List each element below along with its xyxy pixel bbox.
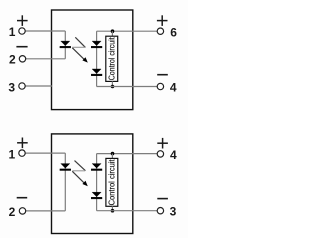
LED D1 [60, 41, 71, 48]
wire pin1 to LED anode (bottom) [25, 152, 65, 154]
svg-text:Control circuit: Control circuit [107, 37, 116, 81]
control circuit block (top coupler) [106, 36, 118, 81]
plus sign pin6 [157, 15, 168, 26]
wire photodiode vertical leg (bottom) [96, 154, 98, 211]
svg-text:6: 6 [170, 26, 177, 40]
svg-text:1: 1 [9, 148, 16, 162]
wire pin1 to LED anode [25, 30, 65, 32]
terminal pin 1 [19, 28, 25, 34]
photodiode PD2 (top coupler) [91, 69, 102, 76]
wire top rail to pin4 (bottom) [97, 153, 158, 155]
svg-text:2: 2 [9, 205, 16, 219]
terminal pin 2 (bottom) [19, 208, 25, 214]
svg-text:Control circuit: Control circuit [108, 159, 117, 206]
terminal pin 2 [19, 56, 25, 62]
plus sign pin1 [17, 15, 28, 26]
svg-text:3: 3 [8, 80, 15, 94]
wire control circuit top stub [111, 31, 113, 36]
terminal pin 6 [157, 28, 163, 34]
wire pin2 to LED cathode [26, 58, 66, 60]
wire control circuit top stub (bottom) [111, 154, 113, 159]
svg-text:1: 1 [9, 25, 16, 39]
junction dot bottom (bottom coupler) [111, 209, 115, 213]
wire control circuit bottom stub (bottom) [111, 206, 113, 210]
minus sign pin2 [16, 46, 27, 48]
junction dot bottom (control circuit to -rail) [111, 85, 115, 89]
minus sign pin2 (bottom) [17, 197, 28, 199]
minus sign pin4 [157, 74, 168, 76]
control circuit block (bottom coupler) [106, 158, 118, 206]
plus sign pin1 (bottom) [17, 138, 28, 149]
package outline U2 (bottom coupler) [52, 134, 133, 234]
LED D2 [60, 164, 71, 171]
terminal pin 1 (bottom) [19, 150, 25, 156]
wire control circuit bottom stub [111, 81, 113, 86]
svg-text:4: 4 [170, 81, 177, 95]
photodiode PD2 (bottom coupler) [91, 192, 102, 199]
wire pin3 stub (N.C.) [25, 85, 52, 87]
photodiode PD1 (bottom coupler) [91, 164, 102, 171]
wire bottom rail to pin4 [97, 86, 158, 88]
junction dot top (control circuit to +rail) [111, 29, 115, 33]
wire LED vertical leg [64, 31, 66, 59]
wire photodiode vertical leg (top) [96, 31, 98, 86]
terminal pin 3 [19, 83, 25, 89]
light arrow (zigzag) top coupler [72, 37, 88, 62]
svg-text:4: 4 [170, 148, 177, 162]
svg-text:3: 3 [170, 205, 177, 219]
minus sign pin3 (bottom) [157, 198, 168, 200]
svg-text:2: 2 [9, 52, 16, 66]
wire LED vertical leg (bottom) [64, 153, 66, 211]
terminal pin 4 [157, 83, 163, 89]
wire pin2 to LED cathode (bottom) [26, 210, 66, 212]
wire bottom rail to pin3 (bottom) [97, 210, 158, 212]
wire top rail to pin6 [97, 30, 158, 32]
plus sign pin4 (bottom) [157, 138, 168, 149]
light arrow (zigzag) bottom coupler [72, 161, 88, 187]
terminal pin 3 (bottom) [157, 208, 163, 214]
photodiode PD1 (top coupler) [91, 41, 102, 48]
package outline U1 (top coupler) [52, 10, 133, 110]
terminal pin 4 (bottom) [157, 151, 163, 157]
junction dot top (bottom coupler) [111, 152, 115, 156]
